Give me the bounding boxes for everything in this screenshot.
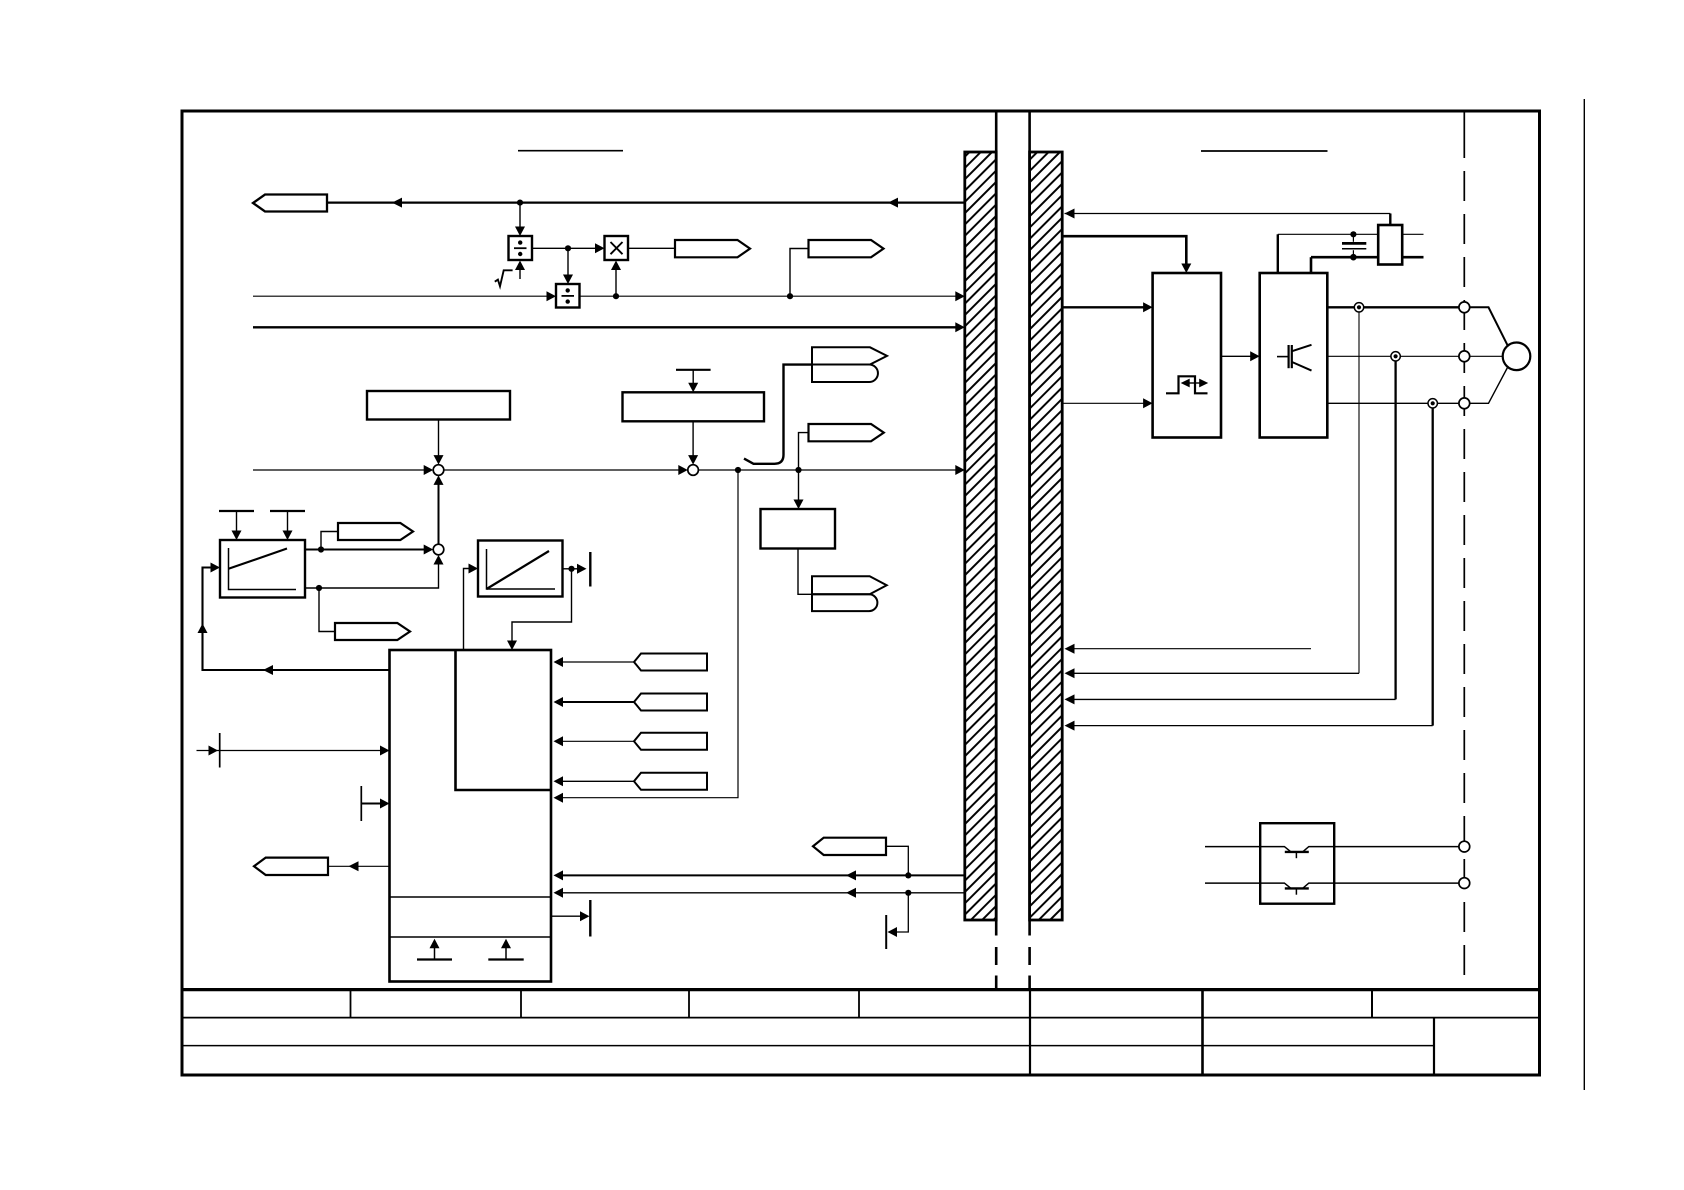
wire switch junction down into block bbox=[562, 470, 738, 798]
arrow left into block y893 bbox=[554, 888, 564, 898]
multiplier X symbol bbox=[611, 242, 623, 254]
wire riser x616 to multiplier bottom bbox=[615, 268, 617, 296]
wire barrier to gate driver y307 bbox=[1063, 306, 1145, 308]
arrow right into limiter bbox=[469, 564, 479, 574]
junction dot x738 y470 bbox=[735, 467, 741, 473]
wire junction x798 down to PI box bbox=[798, 470, 800, 502]
wire ramp bottom output bbox=[305, 563, 439, 589]
connector flag gating input bbox=[813, 838, 886, 855]
current sensor V feedback wire bbox=[1394, 356, 1396, 699]
wire y296 divider2 to barrier bbox=[580, 295, 957, 297]
control block divider line 2 bbox=[390, 936, 552, 938]
wire DC link measurement y649 bbox=[1073, 648, 1311, 650]
arrow right into summing circle 1 bbox=[424, 465, 434, 475]
wire DC voltage measurement y213 bbox=[1065, 213, 1391, 215]
wire flag3 to block bbox=[562, 740, 634, 742]
connector flag pair A top (pointed) bbox=[812, 347, 887, 364]
arrow right into gate driver y403 bbox=[1143, 398, 1153, 408]
arrow left mid y893 bbox=[846, 888, 856, 898]
wire drop to divider 1 bbox=[519, 203, 521, 228]
arrow left into right barrier y213 bbox=[1065, 209, 1075, 219]
summing junction circle 1 bbox=[433, 465, 444, 476]
phase line V y356 bbox=[1327, 355, 1464, 357]
wire box1 to summing circle 1 bbox=[438, 420, 440, 458]
motor phase lead V bbox=[1470, 355, 1503, 357]
gate driver PWM symbol bbox=[1166, 376, 1208, 393]
title block row line 3 bbox=[182, 1045, 1434, 1047]
junction dot y875 x908 bbox=[905, 872, 911, 878]
wire current line y296 left segment bbox=[253, 295, 548, 297]
arrow down into ramp box (2) bbox=[283, 531, 293, 541]
switch blade symbol bbox=[744, 365, 812, 464]
junction dot ramp bottom output bbox=[316, 585, 322, 591]
PI controller box bbox=[761, 509, 836, 549]
junction dot minus rail bbox=[1350, 254, 1357, 261]
arrow down into block top bbox=[507, 641, 517, 651]
divider block 1 bbox=[509, 236, 533, 260]
arrow left into block y741 bbox=[554, 736, 564, 746]
connector flag pair B bottom (rounded) bbox=[812, 594, 877, 611]
arrow up into divider 1 bottom (sqrt input) bbox=[515, 261, 525, 271]
brake resistor line 2 bbox=[1205, 883, 1459, 888]
limiter curve axes bbox=[487, 549, 556, 589]
arrow left into barrier y649 bbox=[1065, 644, 1075, 654]
current sensor U feedback wire bbox=[1358, 307, 1360, 673]
arrow left into terminal bar x886 bbox=[888, 927, 898, 937]
wire multiplier to flag bbox=[628, 247, 675, 249]
multiplier block bbox=[605, 236, 629, 260]
arrow left on y202 at x897 bbox=[888, 198, 898, 208]
junction dot x798 y470 bbox=[795, 467, 801, 473]
arrow right into terminal bar y916 bbox=[580, 911, 590, 921]
arrow down into PI box bbox=[794, 500, 804, 510]
arrow left into block y781 bbox=[554, 776, 564, 786]
arrow down into box 2 bbox=[688, 383, 698, 393]
page border frame bbox=[182, 111, 1540, 1075]
junction dot plus rail bbox=[1350, 231, 1356, 237]
arrow left into block y798 bbox=[554, 793, 564, 803]
setpoint box 2 bbox=[623, 392, 765, 421]
divider block 2 bbox=[556, 284, 580, 308]
brake transistor 2 stub bbox=[1295, 888, 1297, 894]
wire drop x568 to divider 2 bbox=[567, 248, 569, 276]
arrow right into divider 2 bbox=[547, 291, 557, 301]
motor M circle bbox=[1503, 343, 1531, 371]
wire junction to flag ramp out bbox=[321, 532, 338, 550]
connector flag ramp enable bbox=[809, 424, 884, 441]
power supply output stub 2 bbox=[1402, 256, 1423, 259]
wire flag2 to block bbox=[562, 701, 634, 703]
arrow left into block y702 bbox=[554, 697, 564, 707]
arrow right into block y803 bbox=[380, 799, 390, 809]
title block divider v7 bbox=[1371, 990, 1373, 1018]
current sensor V bbox=[1391, 352, 1400, 361]
wire gate driver to IGBT module bbox=[1221, 355, 1252, 357]
control block (main) bbox=[390, 650, 552, 982]
wire barrier to gate driver top y236 bbox=[1063, 236, 1186, 263]
wire barrier to block y875 bbox=[562, 874, 965, 876]
arrow left on y866 bbox=[349, 861, 359, 871]
barrier boundary line right (dashed tail) bbox=[1028, 947, 1031, 990]
riser IGBT top to minus rail bbox=[1310, 257, 1313, 273]
wire stub below divider 1 bbox=[519, 270, 521, 279]
arrow left into barrier y726 bbox=[1065, 721, 1075, 731]
junction dot y893 x908 bbox=[905, 890, 911, 896]
phase line U y307 bbox=[1327, 306, 1464, 308]
arrow left mid y875 bbox=[846, 870, 856, 880]
limiter diagonal bbox=[487, 551, 550, 589]
barrier boundary line left (solid) bbox=[995, 111, 998, 936]
T-bar terminal ramp up time bbox=[219, 510, 254, 512]
current sensor W feedback wire bbox=[1432, 403, 1434, 725]
limiter box bbox=[478, 541, 563, 597]
brake transistor 1 bar bbox=[1285, 851, 1309, 853]
wire T-bar to block y803 bbox=[361, 803, 381, 805]
arrow right into summing circle 2 bbox=[678, 465, 688, 475]
connector flag ramp output bbox=[338, 523, 413, 540]
IGBT transistor symbol bbox=[1277, 356, 1288, 358]
connector flag input 2 bbox=[634, 694, 707, 711]
output terminal circle V bbox=[1459, 351, 1470, 362]
connector flag power output 1 bbox=[675, 240, 750, 257]
summing junction circle 2 bbox=[688, 465, 699, 476]
T-bar terminal ramp down time bbox=[270, 510, 305, 512]
riser IGBT top to plus rail bbox=[1277, 234, 1279, 273]
wire barrier to block y893 bbox=[562, 892, 965, 894]
arrow left into block y662 bbox=[554, 657, 564, 667]
barrier boundary line left (dashed tail) bbox=[995, 947, 998, 990]
wire box2 to summing circle 2 bbox=[692, 421, 694, 457]
arrow right at T-bar y750 bbox=[209, 746, 219, 756]
control block divider line 1 bbox=[390, 896, 552, 898]
right margin fold line bbox=[1583, 99, 1585, 1090]
divider 1 symbol bbox=[514, 247, 527, 249]
junction dot x568 bbox=[565, 245, 571, 251]
junction dot y202/x520 bbox=[517, 200, 523, 206]
arrow up into summing circle 3 bottom bbox=[434, 555, 444, 565]
motor phase lead W bbox=[1470, 368, 1508, 404]
ramp generator box bbox=[220, 540, 305, 598]
motor phase lead U bbox=[1470, 307, 1508, 345]
isolation barrier right hatched bar bbox=[1030, 152, 1063, 920]
wire block output y916 bbox=[551, 915, 582, 917]
wire DC minus rail y257 bbox=[1311, 256, 1378, 259]
IGBT module box bbox=[1260, 273, 1328, 438]
connector flag pair B top (pointed) bbox=[812, 576, 887, 594]
current sensor W bbox=[1428, 399, 1437, 408]
arrow right into block y750 bbox=[380, 746, 390, 756]
wire y470 segment C to barrier bbox=[698, 469, 956, 471]
arrow right into terminal bar bbox=[577, 564, 587, 574]
current sensor U bbox=[1354, 303, 1363, 312]
title block divider v3 bbox=[688, 990, 690, 1018]
output terminal circle W bbox=[1459, 398, 1470, 409]
brake terminal circle 2 bbox=[1459, 878, 1470, 889]
wire flag1 to block bbox=[562, 661, 634, 663]
title block row line 2 bbox=[182, 1017, 1540, 1019]
brake terminal circle 1 bbox=[1459, 841, 1470, 852]
connector flag pair A bottom (rounded) bbox=[812, 365, 878, 383]
arrow up into summing circle 1 bbox=[434, 475, 444, 485]
wire block top to limiter input bbox=[464, 569, 471, 651]
wire PI box to connector pair B bbox=[798, 549, 812, 595]
connector flag input 4 bbox=[634, 773, 707, 790]
wire T-bar to box 2 bbox=[692, 370, 694, 385]
wire y893 junction to terminal bbox=[895, 893, 908, 932]
summing junction circle 3 bbox=[433, 544, 444, 555]
connector flag input 1 bbox=[634, 654, 707, 671]
arrow down into summing circle 2 bbox=[688, 455, 698, 465]
arrow right into barrier y327 bbox=[955, 322, 965, 332]
arrow down into divider 1 bbox=[515, 227, 525, 237]
isolation barrier left hatched bar bbox=[965, 152, 996, 920]
wire drop to power supply box bbox=[1389, 214, 1391, 226]
arrow left on y202 at x401 bbox=[392, 198, 402, 208]
junction dot ramp top output bbox=[318, 546, 324, 552]
T-bar terminal above setpoint box 2 bbox=[676, 369, 711, 371]
arrow up into multiplier bottom bbox=[611, 261, 621, 271]
power supply box bbox=[1378, 225, 1402, 265]
wire T-bar2 to ramp box bbox=[287, 511, 289, 533]
arrow left into block y875 bbox=[554, 870, 564, 880]
title block divider v8 bbox=[1433, 1018, 1435, 1075]
wire ramp output to summing circle 3 bbox=[305, 549, 425, 551]
wire divider1 to multiplier bbox=[532, 247, 597, 249]
brake chopper box bbox=[1260, 823, 1334, 904]
connector flag ramp state bbox=[335, 623, 410, 640]
setpoint box 1 bbox=[367, 391, 510, 420]
title underline right section bbox=[1201, 150, 1328, 152]
brake resistor line 1 bbox=[1205, 847, 1459, 852]
block symbol output arrow 1 bbox=[434, 948, 436, 960]
terminal bar x886 bbox=[885, 915, 887, 949]
connector flag power output 2 bbox=[809, 240, 884, 257]
arrow right into barrier y470 bbox=[955, 465, 965, 475]
wire riser x790 to connector flag bbox=[790, 249, 809, 297]
arrow up on x202 riser bbox=[198, 624, 208, 634]
arrow right into ramp box left bbox=[211, 563, 221, 573]
wire reference line y470 segment A bbox=[253, 469, 425, 471]
title block divider v6 bbox=[1201, 990, 1204, 1075]
barrier boundary line right (solid) bbox=[1028, 111, 1031, 936]
sqrt symbol bbox=[495, 270, 513, 286]
wire block output left y866 bbox=[328, 865, 390, 867]
ramp generator diagonal bbox=[229, 549, 288, 569]
title block divider v4 bbox=[858, 990, 860, 1018]
title block divider v2 bbox=[520, 990, 522, 1018]
arrow left into barrier y699 bbox=[1065, 694, 1075, 704]
title underline left section bbox=[518, 150, 623, 152]
connector flag status output bbox=[254, 858, 328, 875]
wire barrier to gate driver y403 bbox=[1063, 402, 1145, 404]
control block sub-box bbox=[456, 650, 552, 790]
arrow right into multiplier bbox=[595, 243, 605, 253]
phase line W y403 bbox=[1327, 402, 1464, 404]
wire junction down to flag bbox=[319, 588, 335, 632]
brake transistor 1 stub bbox=[1295, 852, 1297, 858]
DC link capacitor C1 bbox=[1352, 234, 1354, 242]
chain line output terminal boundary bbox=[1463, 111, 1465, 158]
junction dot x616 y296 bbox=[613, 293, 619, 299]
wire T-bar1 to ramp box bbox=[236, 511, 238, 533]
wire voltage line y327 bbox=[253, 326, 956, 328]
title block band top line bbox=[182, 988, 1540, 991]
arrow down into ramp box (1) bbox=[232, 531, 242, 541]
wire y470 segment B bbox=[444, 469, 680, 471]
arrow right into gate driver y307 bbox=[1143, 302, 1153, 312]
terminal bar y916 bbox=[589, 900, 591, 937]
block symbol output arrow 2 bbox=[505, 948, 507, 960]
title block divider v1 bbox=[350, 990, 352, 1018]
gate driver box bbox=[1153, 273, 1221, 438]
arrow right into IGBT module bbox=[1250, 351, 1260, 361]
T-bar crossing y750 bbox=[219, 733, 221, 768]
junction dot x790 y296 bbox=[787, 293, 793, 299]
wire flag4 to block bbox=[562, 780, 634, 782]
power supply output stub 1 bbox=[1402, 233, 1423, 235]
wire flag to y875 junction bbox=[886, 846, 908, 875]
junction dot limiter output bbox=[568, 566, 574, 572]
arrow left into barrier y673 bbox=[1065, 668, 1075, 678]
arrow down into summing circle 1 bbox=[434, 455, 444, 465]
connector flag input 3 bbox=[634, 733, 707, 750]
connector flag speed actual output (top left) bbox=[253, 195, 327, 212]
title block divider v5 bbox=[1029, 990, 1031, 1075]
wire control block output to ramp input bbox=[203, 568, 391, 671]
wire limiter output bbox=[563, 568, 579, 570]
T-bar terminal y803 bbox=[360, 786, 362, 821]
wire flag to junction x798 bbox=[799, 433, 809, 467]
wire DC plus rail y234 bbox=[1278, 233, 1378, 235]
divider 2 symbol bbox=[562, 295, 575, 297]
terminal bar limiter bbox=[589, 552, 591, 587]
wire circle3 to circle1 riser bbox=[438, 483, 440, 544]
arrow down into gate driver top bbox=[1181, 264, 1191, 274]
arrow down into divider 2 bbox=[563, 275, 573, 285]
brake transistor 2 bar bbox=[1285, 887, 1309, 889]
ramp generator curve axes bbox=[229, 548, 297, 590]
arrow right into summing circle 3 bbox=[424, 545, 434, 555]
output terminal circle U bbox=[1459, 302, 1470, 313]
arrow left on y670 bbox=[263, 665, 273, 675]
wire top feedback line y202 bbox=[327, 201, 965, 203]
wire left input y750 bbox=[197, 750, 382, 752]
arrow right into barrier y296 bbox=[955, 291, 965, 301]
wire limiter feedback into block bbox=[512, 569, 572, 643]
